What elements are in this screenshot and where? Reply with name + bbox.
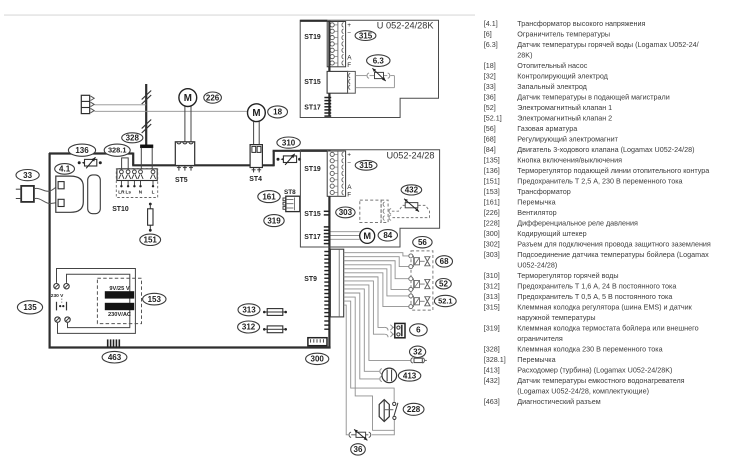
svg-text:ST15: ST15	[304, 211, 321, 218]
wire 230V bus top edge through 136/328.1	[49, 152, 133, 154]
connector ST15 lower comb	[324, 210, 330, 212]
svg-text:6: 6	[416, 326, 421, 335]
legend	[484, 19, 711, 406]
svg-text:M: M	[252, 108, 260, 119]
svg-text:Кодирующий штекер: Кодирующий штекер	[517, 229, 586, 238]
ignition electrode connector 33	[16, 186, 34, 202]
wire sensor 36 to 228	[372, 430, 395, 435]
svg-text:[302]: [302]	[484, 240, 500, 249]
temperature limiter 6 connector	[395, 323, 405, 337]
svg-text:328: 328	[126, 134, 140, 143]
svg-text:[328.1]: [328.1]	[484, 355, 506, 364]
svg-text:[161]: [161]	[484, 198, 500, 207]
svg-text:[52.1]: [52.1]	[484, 114, 502, 123]
svg-text:136: 136	[75, 146, 89, 155]
wire ST9 to flow sensor 36	[344, 305, 349, 435]
wire 302 to cable drop	[94, 104, 146, 106]
svg-text:315: 315	[359, 161, 373, 170]
component block beside 4.1	[88, 175, 101, 214]
svg-text:Терморегулятор подающей линии: Терморегулятор подающей линии отопительн…	[517, 166, 709, 175]
terminal bar 328 (230V strip)	[140, 145, 153, 148]
label 303	[336, 207, 355, 218]
svg-text:U052-24/28: U052-24/28	[386, 150, 434, 160]
svg-text:313: 313	[242, 306, 256, 315]
wire ST9 to valve 52 a	[344, 261, 409, 279]
flow temperature sensor 36	[349, 429, 371, 440]
svg-text:Вентилятор: Вентилятор	[517, 208, 556, 217]
svg-text:[56]: [56]	[484, 124, 496, 133]
svg-text:312: 312	[242, 323, 256, 332]
svg-text:56: 56	[418, 238, 427, 247]
connector ST19 upper	[327, 22, 345, 67]
terminal block ST10	[117, 169, 157, 188]
tank sensor 432 dashed loop	[392, 205, 405, 211]
svg-text:228: 228	[407, 405, 421, 414]
break marks turbine 413	[380, 369, 382, 374]
page rule line	[4, 14, 475, 16]
cable hatch marks lower	[142, 120, 152, 129]
svg-text:153: 153	[148, 295, 162, 304]
wire ST9 to pressure switch 228 lower contact	[344, 297, 395, 430]
svg-text:наружной температуры: наружной температуры	[517, 313, 595, 322]
svg-text:A: A	[347, 54, 352, 61]
transformer 153 secondary winding bar	[105, 303, 134, 310]
svg-text:−: −	[347, 30, 351, 37]
svg-text:[413]: [413]	[484, 366, 500, 375]
wiring loop inner	[67, 274, 130, 327]
connector ST19 lower	[327, 151, 345, 196]
svg-text:[310]: [310]	[484, 271, 500, 280]
connector ST9	[330, 249, 343, 317]
3-way valve motor M 84	[360, 228, 375, 243]
svg-text:ST17: ST17	[304, 234, 321, 241]
label 6.3	[367, 55, 390, 67]
svg-text:ST8: ST8	[284, 189, 296, 196]
wire 230V bus horizontal to ST4	[132, 164, 274, 166]
label 6	[410, 324, 428, 336]
label 300	[306, 353, 329, 364]
svg-text:9V/25 V: 9V/25 V	[109, 286, 129, 292]
connector ST8	[283, 196, 300, 211]
connector ST17 lower comb	[324, 227, 330, 244]
wires 328 bar to ST10	[140, 148, 142, 171]
svg-text:Подсоединение датчика температ: Подсоединение датчика температуры бойлер…	[517, 250, 709, 259]
svg-text:[319]: [319]	[484, 324, 500, 333]
ST10 dashed housing	[116, 169, 157, 198]
ST9 comb teeth	[324, 252, 329, 317]
svg-text:F: F	[347, 192, 351, 199]
tank sensor 432 element	[405, 203, 418, 208]
svg-text:ограничителя: ограничителя	[517, 334, 563, 343]
svg-text:[4.1]: [4.1]	[484, 19, 498, 28]
svg-text:A: A	[347, 184, 352, 191]
fuse 313	[263, 309, 287, 316]
svg-text:[432]: [432]	[484, 376, 500, 385]
label 151	[140, 234, 161, 245]
break marks 6.3	[367, 73, 369, 78]
label 313	[238, 304, 260, 316]
label 135	[17, 301, 42, 314]
svg-text:[328]: [328]	[484, 345, 500, 354]
svg-text:84: 84	[383, 231, 392, 240]
svg-text:52: 52	[439, 279, 448, 288]
main PCB board right edge / terminal bus	[328, 150, 330, 348]
wire ST9 to pressure switch 228 upper contact	[344, 301, 394, 402]
svg-text:68: 68	[440, 257, 449, 266]
wire loop ST15 to sensor 6.3	[355, 75, 366, 77]
svg-text:LR: LR	[118, 190, 125, 195]
svg-text:ST5: ST5	[175, 177, 188, 184]
svg-text:32: 32	[413, 348, 422, 357]
svg-text:[228]: [228]	[484, 219, 500, 228]
thermostat 310 symbol	[277, 154, 302, 165]
solenoid valve 2 (52.1)	[409, 294, 430, 309]
svg-text:Датчик температуры в подающей: Датчик температуры в подающей магистрали	[517, 93, 669, 102]
svg-text:Перемычка: Перемычка	[517, 355, 555, 364]
svg-text:Разъем для подключения провода: Разъем для подключения провода защитного…	[517, 240, 711, 249]
svg-text:[300]: [300]	[484, 229, 500, 238]
svg-text:[18]: [18]	[484, 61, 496, 70]
svg-text:[463]: [463]	[484, 397, 500, 406]
svg-text:161: 161	[262, 192, 276, 201]
wire ST9 to valve 52 b	[344, 265, 409, 290]
wire ST9 to valve 52.1 b	[344, 273, 409, 307]
jumper box above ST10	[122, 158, 129, 169]
bus ST19 to ST15 upper	[328, 21, 330, 72]
svg-text:Регулирующий электромагнит: Регулирующий электромагнит	[517, 135, 618, 144]
ST9 lower comb teeth	[324, 320, 329, 322]
svg-text:Предохранитель Т 0,5 А, 5 В по: Предохранитель Т 0,5 А, 5 В постоянного …	[517, 292, 672, 301]
svg-text:[313]: [313]	[484, 292, 500, 301]
connector ST4	[250, 145, 262, 173]
main PCB board outline left edge	[48, 153, 50, 348]
connector ST5	[175, 142, 194, 171]
svg-text:413: 413	[403, 371, 417, 380]
228 capsule membrane line	[383, 400, 385, 422]
wire ST9 to limiter 6 a	[344, 277, 385, 328]
high-voltage transformer 4.1 body	[56, 176, 84, 212]
wire fan legs	[184, 106, 186, 142]
label 315 upper	[355, 31, 376, 41]
wire ST9 to limiter 6 b	[344, 281, 385, 334]
label 52	[436, 279, 452, 289]
svg-text:[6]: [6]	[484, 30, 492, 39]
main PCB board outline bottom edge	[49, 346, 331, 348]
svg-text:+: +	[347, 152, 351, 159]
svg-text:303: 303	[339, 208, 353, 217]
wire bus to ST19 of U052-24/28	[273, 150, 328, 152]
svg-text:Трансформатор: Трансформатор	[517, 187, 570, 196]
svg-text:319: 319	[267, 216, 281, 225]
svg-text:Диагностический разъем: Диагностический разъем	[517, 397, 600, 406]
svg-text:Двигатель 3-ходового клапана (: Двигатель 3-ходового клапана (Logamax U0…	[517, 145, 694, 154]
heating pump M 18	[248, 104, 266, 122]
svg-text:ST19: ST19	[304, 34, 321, 41]
svg-text:463: 463	[108, 353, 122, 362]
pressure switch 228 capsule	[379, 400, 389, 422]
wire ST9 to solenoid 68 a	[344, 253, 409, 256]
svg-text:[36]: [36]	[484, 93, 496, 102]
label 310	[277, 137, 300, 148]
svg-text:230V/AC: 230V/AC	[108, 312, 131, 318]
svg-text:[315]: [315]	[484, 303, 500, 312]
mains supply cable drop	[145, 84, 147, 146]
svg-text:ST4: ST4	[249, 176, 262, 183]
svg-text:Клеммная колодка регулятора (ш: Клеммная колодка регулятора (шина EMS) и…	[517, 303, 692, 312]
svg-text:Запальный электрод: Запальный электрод	[517, 82, 587, 91]
label 84	[378, 230, 397, 241]
228 switch lever	[394, 403, 398, 417]
fuse 151	[148, 203, 153, 232]
svg-text:+: +	[347, 22, 351, 29]
svg-text:[303]: [303]	[484, 250, 500, 259]
on/off switch 135	[51, 284, 70, 323]
wiring loop outer (switch to transformer)	[57, 269, 136, 334]
hot water sensor 6.3	[375, 72, 384, 78]
monitoring electrode 32	[411, 358, 427, 363]
svg-text:M: M	[363, 231, 371, 241]
svg-text:[52]: [52]	[484, 103, 496, 112]
fan motor M 226	[179, 89, 197, 107]
svg-text:Датчик температуры емкостного: Датчик температуры емкостного водонагрев…	[517, 376, 684, 385]
svg-text:F: F	[347, 62, 351, 69]
connector ST15 upper	[327, 71, 355, 93]
label 432	[401, 185, 422, 195]
wires 33 to transformer 4.1	[34, 186, 58, 191]
svg-text:[151]: [151]	[484, 177, 500, 186]
svg-text:[226]: [226]	[484, 208, 500, 217]
svg-text:Ограничитель температуры: Ограничитель температуры	[517, 30, 610, 39]
svg-text:226: 226	[206, 93, 220, 102]
transformer 153 dashed box	[97, 278, 141, 323]
label 315 lower	[355, 160, 377, 170]
control unit U052-24/28K outline	[300, 20, 438, 117]
svg-text:310: 310	[282, 138, 296, 147]
svg-text:(Logamax U052-24/28, комплекту: (Logamax U052-24/28, комплектующие)	[517, 387, 649, 396]
bus ST15 to ST17 upper	[328, 93, 330, 116]
svg-text:315: 315	[359, 31, 373, 40]
228 actuator rod	[384, 409, 393, 411]
svg-text:−: −	[347, 160, 351, 167]
svg-text:[84]: [84]	[484, 145, 496, 154]
transformer 153 primary winding bar	[105, 291, 134, 298]
wire ST9 to electrode 32	[344, 285, 411, 360]
svg-text:Ls: Ls	[126, 190, 132, 195]
label 226	[204, 92, 222, 103]
wire bus step down	[132, 153, 134, 166]
svg-text:Датчик температуры горячей вод: Датчик температуры горячей воды (Logamax…	[517, 40, 698, 49]
label 52.1	[434, 295, 456, 306]
svg-text:Контролирующий электрод: Контролирующий электрод	[517, 72, 608, 81]
diagnostic connector 463	[107, 339, 120, 347]
gas armature 56 dashed box	[411, 251, 433, 310]
cable hatch marks upper	[142, 91, 152, 100]
svg-text:Клеммная колодка 230 В перемен: Клеммная колодка 230 В переменного тока	[517, 345, 662, 354]
wire ST9 to turbine 413 a	[344, 289, 380, 371]
regulating solenoid 68	[409, 254, 430, 269]
label 161	[258, 191, 280, 203]
wire ST9 to solenoid 68 b	[344, 257, 409, 267]
svg-text:52.1: 52.1	[438, 297, 452, 306]
svg-text:U052-24/28): U052-24/28)	[517, 261, 557, 270]
svg-text:Расходомер (турбина) (Logamax: Расходомер (турбина) (Logamax U052-24/28…	[517, 366, 672, 375]
svg-text:ST10: ST10	[112, 206, 129, 213]
svg-text:Газовая арматура: Газовая арматура	[517, 124, 577, 133]
svg-text:33: 33	[23, 171, 32, 180]
svg-text:36: 36	[354, 445, 363, 454]
svg-text:Кнопка включения/выключения: Кнопка включения/выключения	[517, 156, 622, 165]
svg-text:Дифференциальное реле давления: Дифференциальное реле давления	[517, 219, 638, 228]
svg-text:300: 300	[311, 355, 325, 364]
wire 302 to pump M18	[94, 110, 247, 112]
label 463	[102, 351, 127, 363]
label 319	[264, 215, 284, 227]
label 228	[403, 403, 424, 415]
fuse 312	[263, 326, 287, 333]
svg-text:Предохранитель Т 2,5 А, 230 В: Предохранитель Т 2,5 А, 230 В переменног…	[517, 177, 682, 186]
wire stubs into limiter 6	[392, 326, 395, 328]
label 413	[398, 370, 420, 381]
svg-text:[153]: [153]	[484, 187, 500, 196]
thermostat 136 symbol	[78, 157, 102, 168]
wires ST17 to valve motor 84	[331, 231, 360, 233]
svg-text:Клеммная колодка термостата бо: Клеммная колодка термостата бойлера или …	[517, 324, 698, 333]
svg-text:ST15: ST15	[304, 79, 321, 86]
label 32	[410, 346, 426, 357]
svg-text:[33]: [33]	[484, 82, 496, 91]
label 312	[238, 321, 260, 333]
connector 302 (protective earth)	[81, 95, 94, 113]
solenoid valve 1 (52)	[409, 277, 430, 292]
svg-text:[136]: [136]	[484, 166, 500, 175]
svg-text:328.1: 328.1	[108, 146, 127, 155]
label 153	[143, 293, 166, 305]
svg-text:Терморегулятор горячей воды: Терморегулятор горячей воды	[517, 271, 618, 280]
coding plug 300	[308, 338, 327, 346]
label 136	[68, 144, 95, 156]
svg-text:Электромагнитный клапан 1: Электромагнитный клапан 1	[517, 103, 612, 112]
svg-text:L: L	[152, 190, 155, 195]
label 18	[268, 106, 288, 118]
svg-text:18: 18	[273, 108, 282, 117]
connector ST17 upper comb	[324, 98, 331, 117]
svg-text:Перемычка: Перемычка	[517, 198, 555, 207]
wire ST9 to valve 52.1 a	[344, 269, 409, 296]
svg-text:ST19: ST19	[304, 166, 321, 173]
svg-text:[6.3]: [6.3]	[484, 40, 498, 49]
svg-text:Отопительный насос: Отопительный насос	[517, 61, 587, 70]
connector for tank sensor (303 socket)	[360, 200, 388, 222]
label 36	[351, 444, 366, 455]
svg-text:230 V: 230 V	[51, 293, 64, 299]
label 328.1	[104, 144, 130, 156]
svg-text:432: 432	[405, 186, 419, 195]
wire bus entry upper box	[300, 20, 327, 22]
svg-text:ST9: ST9	[304, 276, 317, 283]
4.1 terminal squares	[58, 182, 64, 189]
svg-text:[312]: [312]	[484, 282, 500, 291]
label 33	[16, 170, 39, 181]
svg-text:4.1: 4.1	[59, 165, 71, 174]
break marks 432	[389, 209, 391, 214]
svg-text:6.3: 6.3	[373, 56, 385, 65]
svg-text:[32]: [32]	[484, 72, 496, 81]
svg-text:U 052-24/28K: U 052-24/28K	[377, 21, 435, 31]
control unit U052-24/28 outline	[300, 150, 439, 247]
svg-text:M: M	[184, 93, 192, 104]
wire ST9 to turbine 413 b	[344, 293, 380, 379]
break marks limiter 6	[384, 327, 388, 330]
flow turbine 413	[382, 368, 397, 383]
svg-text:Предохранитель Т 1,6 А, 24 В п: Предохранитель Т 1,6 А, 24 В постоянного…	[517, 282, 676, 291]
svg-text:135: 135	[23, 303, 37, 312]
wire pump legs	[253, 122, 255, 145]
svg-text:[68]: [68]	[484, 135, 496, 144]
label 56	[413, 237, 432, 248]
svg-text:28K): 28K)	[517, 51, 532, 60]
label 4.1	[55, 164, 75, 175]
svg-text:151: 151	[144, 236, 158, 245]
228 switch contacts	[393, 402, 396, 405]
label 328	[122, 133, 143, 143]
wire bus step up after ST4	[273, 151, 275, 167]
svg-text:[135]: [135]	[484, 156, 500, 165]
svg-text:Электромагнитный клапан 2: Электромагнитный клапан 2	[517, 114, 612, 123]
svg-text:ST17: ST17	[304, 105, 321, 112]
svg-text:Трансформатор высокого напряже: Трансформатор высокого напряжения	[517, 19, 645, 28]
label 68	[436, 256, 453, 267]
